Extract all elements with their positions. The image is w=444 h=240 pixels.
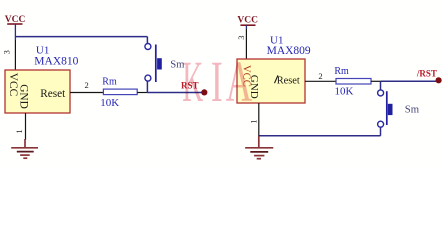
power VCC (left) bar symbol [7, 23, 22, 25]
wire VCC to U1 pin 3 (right) [245, 25, 247, 29]
node RST terminal dot [201, 89, 207, 95]
svg-text:3: 3 [236, 36, 246, 40]
resistor Rm body (right) [336, 79, 371, 85]
svg-text:MAX809: MAX809 [267, 45, 311, 57]
wire junction down to switch top (right) [380, 81, 382, 89]
switch Sm (right) actuator thin bar [386, 91, 388, 125]
svg-text:Sm: Sm [405, 104, 420, 116]
svg-text:10K: 10K [335, 86, 354, 98]
pin 2 of U1 (left) [70, 92, 103, 94]
svg-text:/RST: /RST [416, 68, 437, 78]
pin 1 of U1 (left) [25, 113, 27, 123]
pin name /Reset inside right box [275, 75, 278, 83]
svg-text:A: A [226, 51, 252, 114]
pin 2 of U1 (right) [305, 80, 336, 82]
op-amp U1 MAX809 body (right IC box) [237, 59, 305, 103]
svg-text:MAX810: MAX810 [34, 55, 78, 67]
pin of resistor Rm right (right) [371, 80, 381, 82]
svg-text:Rm: Rm [102, 76, 117, 87]
wire switch top leg up to VCC net (left) [146, 37, 148, 44]
wire top horizontal VCC net to switch [15, 36, 147, 38]
svg-text:GND: GND [17, 84, 29, 109]
wire pin1 down through junction to ground (right) [258, 113, 260, 136]
svg-text:Rm: Rm [334, 66, 349, 77]
svg-text:3: 3 [2, 50, 12, 54]
svg-text:1: 1 [14, 129, 24, 133]
op-amp U1 MAX810 body (left IC box) [5, 70, 70, 113]
switch Sm (right pushbutton) top terminal [378, 90, 384, 96]
switch Sm (left) actuator thin bar [155, 45, 157, 83]
power VCC (right) bar symbol [240, 24, 255, 26]
switch Sm (right) bottom terminal [378, 121, 384, 127]
ground symbol (right) [245, 136, 273, 159]
pin of resistor Rm right (left) [137, 92, 147, 94]
wire switch bottom leg down to RST net (left) [146, 82, 148, 93]
pin 3 of U1 (right) [245, 29, 247, 59]
wire switch bottom down to GND net (right) [380, 127, 382, 135]
svg-text:10K: 10K [100, 97, 119, 109]
wire from T-junction down toward U1 pin 3 [14, 37, 16, 40]
switch Sm (left pushbutton) top terminal [145, 44, 151, 50]
wire bottom horizontal GND net (right) [259, 135, 381, 137]
resistor Rm body (left) [103, 89, 137, 95]
pin 3 of U1 (left) [14, 40, 16, 70]
pin 1 of U1 (right) [258, 103, 260, 113]
svg-text:2: 2 [85, 80, 89, 90]
svg-text:VCC: VCC [237, 16, 258, 26]
wire pin1 to ground (left) [25, 123, 27, 140]
wire VCC stub to T-junction (left) [14, 24, 16, 37]
wire resistor to /RST node (right) [381, 80, 438, 82]
node /RST terminal dot [436, 77, 442, 83]
svg-text:K: K [182, 49, 203, 114]
svg-text:Reset: Reset [40, 88, 66, 100]
svg-text:2: 2 [318, 71, 322, 81]
svg-text:I: I [211, 51, 223, 115]
switch Sm (left) actuator thick bar [157, 58, 162, 69]
wire resistor to RST node (left) [148, 92, 203, 94]
svg-text:1: 1 [248, 120, 258, 124]
svg-text:Reset: Reset [277, 75, 300, 86]
watermark letter K [182, 49, 252, 114]
switch Sm (right) actuator thick bar [388, 104, 393, 115]
switch Sm (left) bottom terminal [145, 75, 151, 81]
ground symbol (left) [11, 139, 38, 158]
